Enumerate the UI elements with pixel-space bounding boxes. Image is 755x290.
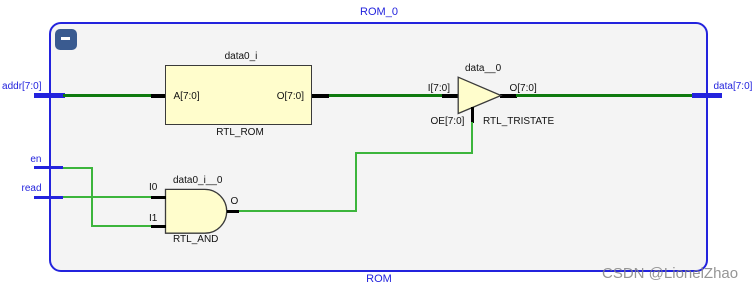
pin I0 of AND <box>151 196 167 199</box>
pin O of AND <box>227 210 240 213</box>
pin O[7:0] of ROM <box>312 94 329 98</box>
wire read to AND I0 <box>63 196 151 198</box>
ROM block data0_i <box>165 65 313 126</box>
port label data[7:0] <box>714 82 755 92</box>
wire horizontal to OE column <box>355 152 474 154</box>
port label en <box>0 155 42 165</box>
wire vertical up to OE pin <box>471 122 473 154</box>
wire en to AND I1 <box>91 225 151 227</box>
label data0_i <box>171 52 311 62</box>
pin label O[7:0] (tristate) <box>510 84 537 94</box>
watermark <box>602 265 738 282</box>
port stub en <box>34 166 63 170</box>
port stub data[7:0] <box>692 93 723 98</box>
label data__0 <box>465 64 501 74</box>
wire AND O to corner <box>239 210 357 212</box>
wire en (port to corner) <box>63 167 93 169</box>
pin I[7:0] of tristate <box>442 94 459 98</box>
port stub addr[7:0] <box>34 93 65 98</box>
module instance label ROM_0 (top) <box>309 7 449 17</box>
label RTL_AND <box>173 235 218 245</box>
pin OE[7:0] of tristate (vertical) <box>471 107 474 123</box>
label data0_i__0 <box>173 176 223 186</box>
pin I1 of AND <box>151 225 167 228</box>
pin label O <box>231 197 239 207</box>
pin label OE[7:0] <box>431 117 465 127</box>
label RTL_TRISTATE <box>483 117 554 127</box>
pin O[7:0] of tristate <box>500 94 517 98</box>
wire en vertical <box>91 167 93 228</box>
port stub read <box>34 196 63 200</box>
port label read <box>0 184 42 194</box>
wire bus ROM O to tristate I <box>328 94 443 97</box>
pin label I1 <box>149 214 157 224</box>
wire vertical up from AND output <box>355 152 357 212</box>
AND gate data0_i__0 <box>160 185 235 240</box>
wire bus tristate O to data port <box>516 94 692 97</box>
tristate buffer data__0 <box>450 70 510 120</box>
pin label I[7:0] <box>422 84 450 94</box>
pin A[7:0] of ROM <box>151 94 166 98</box>
module type label ROM (bottom) <box>309 274 449 284</box>
collapse icon (minus button) <box>55 29 77 50</box>
pin label O[7:0] (ROM) <box>276 92 304 102</box>
label RTL_ROM <box>170 128 310 138</box>
pin label A[7:0] <box>174 92 200 102</box>
pin label I0 <box>149 183 157 193</box>
wire addr bus (addr port to ROM A pin) <box>63 94 151 97</box>
module ROM_0 outer boundary <box>49 22 708 272</box>
port label addr[7:0] <box>0 82 42 92</box>
